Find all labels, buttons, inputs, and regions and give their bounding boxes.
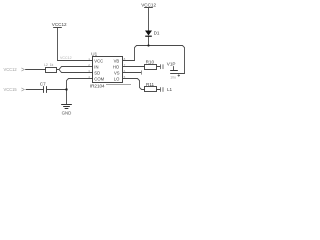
svg-text:VCC12: VCC12 [4,67,18,72]
svg-text:HO: HO [113,65,120,70]
svg-text:1k: 1k [50,63,54,67]
svg-text:VB: VB [114,58,120,63]
svg-text:C7: C7 [40,81,46,86]
svg-text:VS: VS [114,70,120,75]
svg-text:L2: L2 [44,63,48,67]
svg-text:VCC12: VCC12 [52,22,67,27]
svg-text:L1: L1 [167,87,173,92]
svg-text:U1: U1 [91,52,97,57]
svg-text:D1: D1 [154,31,160,36]
svg-text:GND: GND [62,110,72,115]
svg-text:10u: 10u [170,76,176,80]
svg-text:SD: SD [94,70,100,75]
svg-text:VCC12: VCC12 [141,3,156,8]
svg-text:V1P: V1P [167,61,176,66]
svg-text:VCC12: VCC12 [60,56,72,60]
svg-text:VCC15: VCC15 [4,87,18,92]
svg-text:IR2104: IR2104 [90,84,105,89]
svg-text:LO: LO [114,76,120,81]
svg-text:IN: IN [94,65,98,70]
svg-text:R10: R10 [146,60,155,65]
svg-text:COM: COM [94,76,104,81]
svg-text:R11: R11 [146,82,155,87]
svg-text:VCC: VCC [94,58,103,63]
